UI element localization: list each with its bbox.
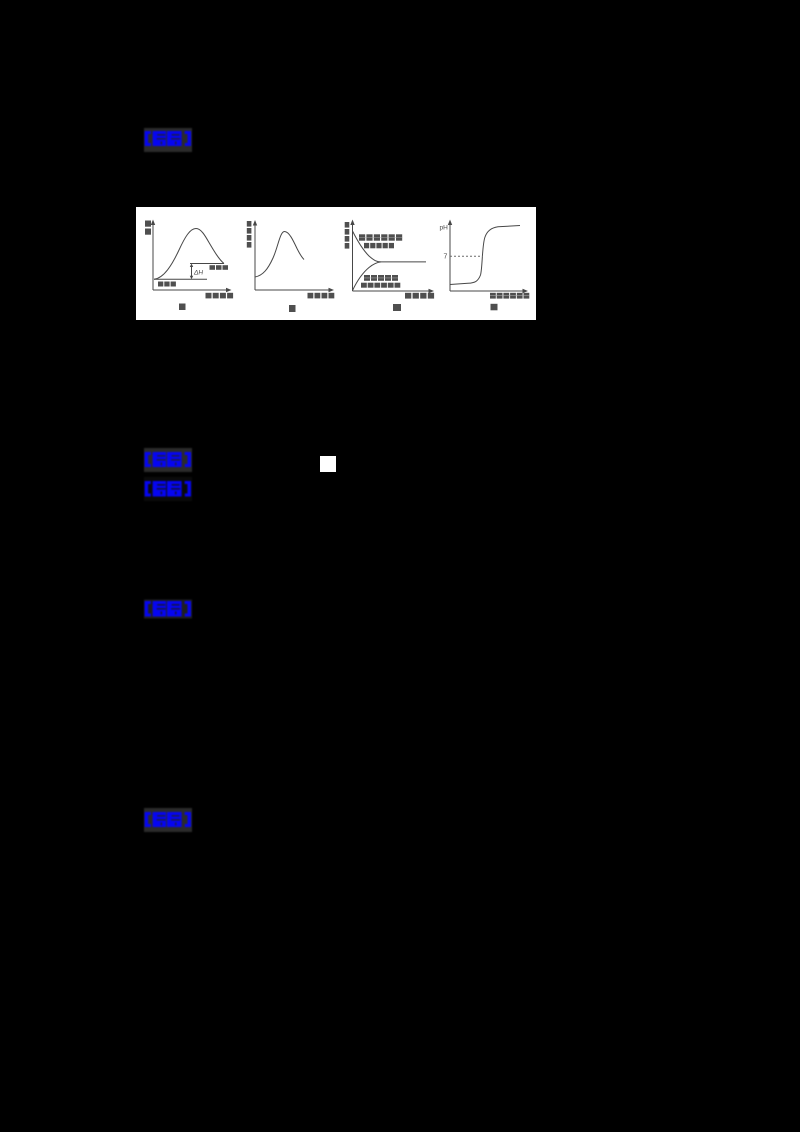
yi x label 反应温度 [308, 293, 314, 299]
sub-labels 甲乙丙丁 [179, 304, 186, 311]
axis arrowheads [151, 220, 528, 294]
jia bell curve [154, 229, 224, 280]
jia reactant level line [154, 278, 207, 280]
jia reactant text 反应物 [158, 282, 163, 287]
svg-text:ΔH: ΔH [193, 270, 203, 277]
blue label 【答案】 [144, 128, 192, 152]
bing upper curve [353, 231, 427, 262]
jia product text 生成物 [210, 265, 216, 270]
blue label 【考点】 [144, 448, 192, 472]
blue label 【解答】 [144, 597, 192, 621]
blue label 【分析】 [144, 477, 192, 501]
yi y label 反应速率 [247, 221, 252, 227]
white square bullet [320, 456, 336, 472]
blue label 【点评】 [144, 808, 192, 832]
ding titration curve [450, 226, 520, 285]
chart panel [136, 207, 536, 320]
jia product level line [190, 263, 224, 265]
chart yi axes [254, 224, 256, 290]
bing upper text line1 弱电解质分子 [359, 234, 365, 240]
ding dotted pH7 line [450, 255, 483, 257]
chart ding axes [449, 223, 451, 291]
chart jia axes [152, 223, 154, 290]
text blobs (CJK axis labels, unreadable at this scale) [145, 221, 529, 313]
bing lower text line1 离子结合为 [364, 275, 370, 281]
jia dH arrow line [191, 265, 193, 278]
jia dH double arrow heads [190, 264, 193, 268]
ding x label 碱溶液的体积 [490, 293, 496, 299]
jia y label 能量 [145, 221, 151, 227]
faint white texture lines through text blobs [359, 238, 529, 296]
jia x label 反应过程 [206, 293, 212, 299]
bing y label 反应速率 [345, 222, 350, 228]
svg-text:7: 7 [444, 254, 448, 261]
bing upper text line2 电离为离子 [364, 243, 369, 248]
bing x label 反应时间 [405, 293, 411, 299]
bing lower text line2 弱电解质分子 [361, 283, 367, 288]
bing lower curve [353, 262, 382, 291]
svg-text:pH: pH [440, 225, 449, 232]
yi curve [255, 232, 304, 278]
chart bing axes [352, 223, 354, 291]
